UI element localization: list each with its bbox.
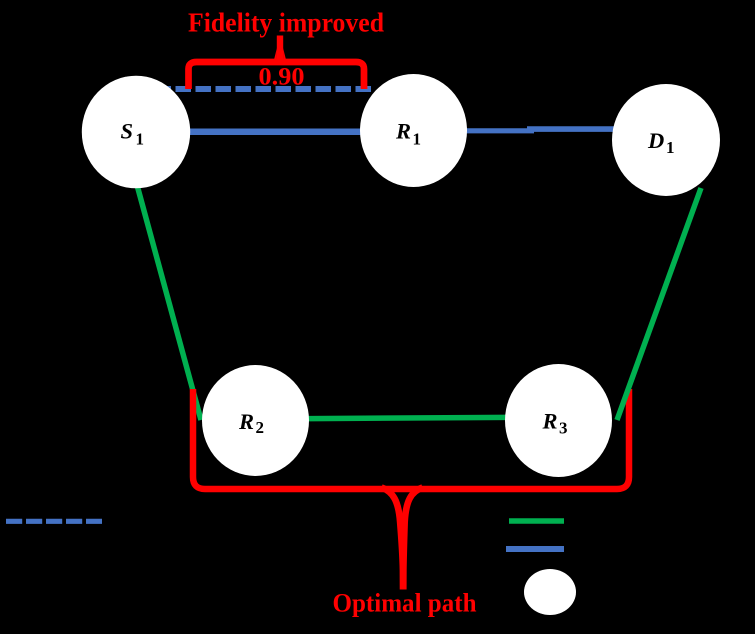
svg-text:3: 3 [559, 419, 568, 438]
svg-text:D: D [647, 128, 664, 153]
svg-text:R: R [542, 408, 558, 433]
svg-text:2: 2 [256, 418, 265, 437]
svg-text:R: R [395, 119, 411, 144]
svg-text:Optimal path: Optimal path [333, 589, 478, 618]
svg-text:1: 1 [413, 130, 422, 149]
svg-text:1: 1 [666, 138, 675, 157]
svg-text:S: S [121, 119, 134, 144]
svg-text:Fidelity improved: Fidelity improved [188, 8, 384, 38]
svg-text:R: R [238, 409, 254, 434]
svg-text:1: 1 [136, 129, 145, 148]
svg-text:0.90: 0.90 [259, 62, 305, 91]
